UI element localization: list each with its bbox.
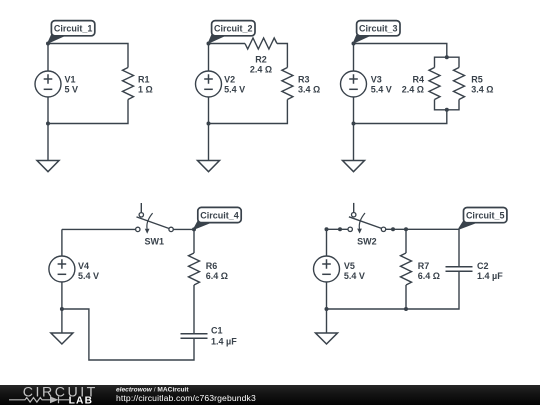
resistor R4 — [429, 68, 440, 100]
svg-text:V4: V4 — [78, 261, 89, 271]
voltage source V3 — [341, 44, 392, 124]
svg-text:5.4 V: 5.4 V — [371, 85, 392, 95]
wire R7 bottom — [405, 285, 407, 309]
ground circuit 1 — [37, 124, 59, 172]
capacitor C1 — [181, 334, 208, 339]
svg-text:R2: R2 — [255, 55, 267, 65]
switch SW2 — [348, 203, 386, 247]
svg-text:5.4 V: 5.4 V — [224, 85, 245, 95]
svg-text:1.4 µF: 1.4 µF — [477, 271, 503, 281]
voltage source V4 — [49, 229, 99, 309]
voltage source V5 — [314, 229, 365, 309]
svg-text:Circuit_4: Circuit_4 — [200, 210, 239, 220]
resistor R3 — [282, 68, 293, 100]
svg-text:6.4 Ω: 6.4 Ω — [206, 271, 228, 281]
svg-text:R5: R5 — [471, 75, 483, 85]
node circuit 1 bottom — [46, 122, 50, 126]
svg-text:V2: V2 — [224, 75, 235, 85]
svg-text:V5: V5 — [344, 261, 355, 271]
svg-text:Circuit_5: Circuit_5 — [466, 211, 505, 221]
resistor R5 — [454, 68, 465, 100]
wire bottom circuit 2 — [209, 100, 288, 124]
svg-text:Circuit_2: Circuit_2 — [214, 24, 253, 34]
svg-text:R3: R3 — [298, 75, 310, 85]
wire bottom circuit 5 — [327, 271, 460, 309]
node parallel top — [445, 55, 449, 59]
wire circuit 2 node to R2 — [209, 43, 246, 45]
svg-text:SW2: SW2 — [357, 237, 377, 247]
wire R6 to C1 — [193, 285, 195, 334]
wire SW2 to C2 — [386, 229, 459, 266]
svg-text:http://circuitlab.com/c763rgeb: http://circuitlab.com/c763rgebundk3 — [116, 393, 256, 403]
svg-text:R6: R6 — [206, 261, 218, 271]
node R7 bottom — [404, 307, 408, 311]
resistor R7 — [401, 253, 412, 285]
node circuit 1 top — [46, 42, 50, 46]
svg-text:V3: V3 — [371, 75, 382, 85]
wire R2 to R3 — [277, 44, 287, 68]
wire bottom circuit 1 — [48, 100, 128, 124]
wire SW1 to node — [173, 228, 194, 230]
svg-text:6.4 Ω: 6.4 Ω — [418, 271, 440, 281]
node SW2 left — [338, 227, 342, 231]
node circuit 3 bottom — [352, 122, 356, 126]
node circuit 2 top — [207, 42, 211, 46]
node V5 top corner — [325, 227, 329, 231]
node R7 top — [404, 227, 408, 231]
svg-text:SW1: SW1 — [145, 237, 165, 247]
switch SW1 — [136, 203, 174, 247]
svg-text:LAB: LAB — [69, 396, 94, 405]
resistor R6 — [189, 253, 200, 285]
ground circuit 5 — [316, 309, 338, 344]
svg-text:R1: R1 — [138, 75, 150, 85]
node circuit 4 top — [192, 227, 196, 231]
svg-text:5 V: 5 V — [65, 85, 79, 95]
logo resistor-diode squiggle — [9, 396, 69, 403]
wire V4 to SW1 — [62, 228, 136, 230]
wire to R7 — [405, 229, 407, 253]
ground circuit 3 — [343, 124, 365, 172]
node SW2 right — [391, 227, 395, 231]
svg-text:1.4 µF: 1.4 µF — [211, 337, 237, 347]
resistor R1 — [123, 68, 134, 100]
callout Circuit_1 — [47, 21, 95, 45]
capacitor C2 — [446, 267, 473, 272]
node circuit 2 bottom — [207, 122, 211, 126]
wire V5 to SW2 — [327, 228, 349, 230]
voltage source V1 — [35, 44, 78, 124]
wire parallel bottom bar — [435, 100, 460, 110]
callout Circuit_4 — [193, 207, 242, 230]
svg-text:3.4 Ω: 3.4 Ω — [298, 85, 320, 95]
footer bar — [0, 385, 540, 405]
svg-text:R4: R4 — [412, 75, 424, 85]
ground circuit 2 — [198, 124, 220, 172]
svg-text:Circuit_1: Circuit_1 — [54, 24, 93, 34]
wire parallel top bar — [435, 57, 460, 67]
svg-text:5.4 V: 5.4 V — [344, 271, 365, 281]
svg-text:5.4 V: 5.4 V — [78, 271, 99, 281]
wire top circuit 1 — [48, 44, 128, 68]
svg-text:2.4 Ω: 2.4 Ω — [402, 85, 424, 95]
voltage source V2 — [196, 44, 246, 124]
svg-text:3.4 Ω: 3.4 Ω — [471, 85, 493, 95]
callout Circuit_5 — [458, 208, 507, 231]
node circuit 5 bottom — [325, 307, 329, 311]
callout Circuit_3 — [352, 21, 400, 45]
svg-text:C1: C1 — [211, 326, 223, 336]
svg-text:V1: V1 — [65, 75, 76, 85]
svg-text:1 Ω: 1 Ω — [138, 85, 153, 95]
callout Circuit_2 — [207, 21, 255, 45]
wire node to R6 — [193, 229, 195, 253]
svg-text:C2: C2 — [477, 261, 489, 271]
node circuit 4 bottom — [60, 307, 64, 311]
wire top circuit 3 — [354, 44, 447, 58]
wire bottom circuit 3 — [354, 110, 447, 124]
ground circuit 4 — [51, 309, 73, 344]
node parallel bottom — [445, 108, 449, 112]
wire C1 to ground node — [62, 309, 194, 360]
svg-text:2.4 Ω: 2.4 Ω — [250, 65, 272, 75]
node circuit 3 top — [352, 42, 356, 46]
resistor R2 — [245, 38, 277, 49]
svg-text:R7: R7 — [418, 261, 430, 271]
svg-text:Circuit_3: Circuit_3 — [359, 24, 398, 34]
